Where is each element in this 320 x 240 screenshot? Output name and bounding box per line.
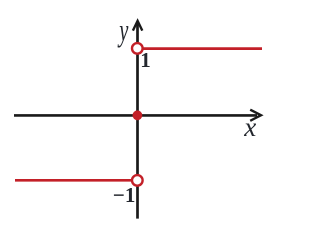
y-axis arrowhead <box>133 21 142 31</box>
svg-text:−1: −1 <box>113 183 135 207</box>
red segment y=1 for x>0 <box>143 47 262 50</box>
x-axis arrowhead <box>250 110 261 121</box>
red segment y=-1 for x<0 <box>15 179 132 182</box>
x-axis <box>14 114 257 117</box>
open circle (0,1) <box>132 43 143 54</box>
svg-text:x: x <box>243 112 256 142</box>
filled point (0,0) <box>133 110 143 120</box>
y-axis <box>136 22 139 219</box>
svg-text:1: 1 <box>140 48 151 72</box>
open circle (0,-1) <box>132 175 143 186</box>
svg-text:y: y <box>117 12 129 48</box>
